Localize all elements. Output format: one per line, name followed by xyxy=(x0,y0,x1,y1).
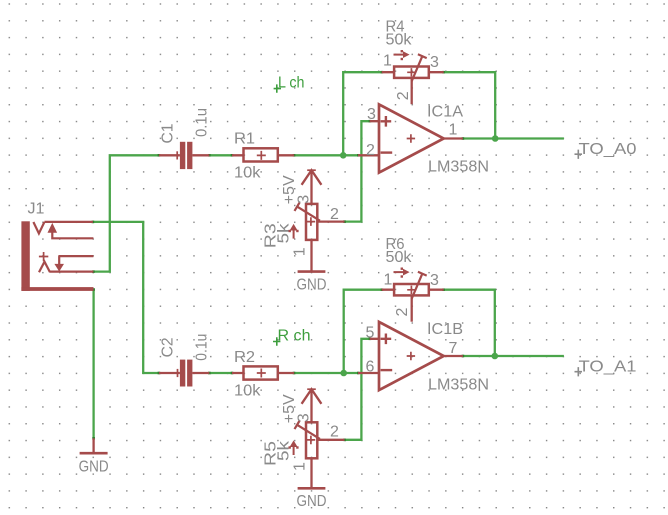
ground GND (R3) xyxy=(297,272,327,294)
trimmer R4 xyxy=(382,50,444,104)
svg-text:2: 2 xyxy=(395,91,412,100)
wire IC1B output to TO_A1 xyxy=(463,355,564,357)
ground GND (J1) xyxy=(79,438,109,475)
svg-text:L ch: L ch xyxy=(278,75,305,92)
resistor R1 xyxy=(232,148,294,161)
wire feedback junction to R6 pin1 xyxy=(344,290,382,373)
connector J1 xyxy=(21,221,93,291)
svg-text:GND: GND xyxy=(297,493,327,510)
svg-text:R1: R1 xyxy=(234,131,255,148)
svg-text:0.1u: 0.1u xyxy=(194,108,211,137)
wire R1 to IC1A pin2 xyxy=(294,154,358,156)
svg-text:6: 6 xyxy=(366,359,375,376)
svg-text:1: 1 xyxy=(384,272,393,289)
trimmer R3 xyxy=(289,202,345,271)
net label L ch xyxy=(274,75,305,93)
svg-text:LM358N: LM358N xyxy=(428,376,489,393)
svg-text:2: 2 xyxy=(330,423,339,440)
net label R ch xyxy=(273,328,311,346)
capacitor C1 xyxy=(159,142,209,169)
svg-text:2: 2 xyxy=(330,206,339,223)
svg-text:5k: 5k xyxy=(276,440,293,461)
svg-text:2: 2 xyxy=(366,142,375,159)
supply +5V (R5) xyxy=(302,389,322,422)
svg-text:7: 7 xyxy=(449,340,458,357)
svg-text:GND: GND xyxy=(297,277,327,294)
svg-text:TO_A0: TO_A0 xyxy=(579,141,637,158)
svg-text:2: 2 xyxy=(394,308,411,317)
svg-text:1: 1 xyxy=(292,462,309,471)
net label TO_A0 xyxy=(575,141,637,159)
svg-text:5k: 5k xyxy=(276,222,293,243)
junction at IC1B output xyxy=(492,353,499,360)
capacitor C2 xyxy=(159,360,209,387)
wire J1 tip-R to C1 input xyxy=(93,155,158,271)
svg-text:50k: 50k xyxy=(386,31,413,48)
svg-text:C1: C1 xyxy=(160,123,177,143)
wire C2 to R2 xyxy=(209,372,232,374)
resistor R2 xyxy=(232,366,294,379)
svg-text:IC1B: IC1B xyxy=(427,321,463,338)
svg-text:3: 3 xyxy=(367,106,376,123)
svg-text:3: 3 xyxy=(296,195,313,204)
svg-text:10k: 10k xyxy=(234,382,262,399)
svg-text:1: 1 xyxy=(292,247,309,256)
wire J1 sleeve to GND xyxy=(92,289,94,438)
wire R5 wiper to IC1B pin5 xyxy=(344,339,370,440)
svg-text:1: 1 xyxy=(449,122,458,139)
svg-text:3: 3 xyxy=(430,54,439,71)
op-amp IC1A xyxy=(358,104,463,172)
wire C1 to R1 xyxy=(209,154,232,156)
svg-text:3: 3 xyxy=(296,413,313,422)
junction at R1/R4/IC1A pin2 xyxy=(340,152,347,159)
wire IC1A output to TO_A0 xyxy=(463,137,564,139)
wire R6 pin3 to output xyxy=(444,290,495,356)
svg-text:J1: J1 xyxy=(28,201,45,218)
wire endpoint marks xyxy=(92,71,465,441)
svg-text:R2: R2 xyxy=(234,349,255,366)
net label TO_A1 xyxy=(575,359,637,377)
trimmer R6 xyxy=(382,268,444,322)
supply +5V (R3) xyxy=(302,170,322,204)
svg-text:C2: C2 xyxy=(160,337,177,357)
wire R2 to IC1B pin6 xyxy=(294,372,358,374)
ground GND (R5) xyxy=(297,488,327,510)
junction at R2/R6/IC1B pin6 xyxy=(340,370,347,377)
wire R3 wiper to IC1A pin3 xyxy=(344,121,370,221)
svg-text:LM358N: LM358N xyxy=(428,159,489,176)
trimmer R5 xyxy=(289,421,345,489)
wire feedback junction to R4 pin1 xyxy=(343,72,382,155)
svg-text:TO_A1: TO_A1 xyxy=(579,359,637,376)
svg-text:3: 3 xyxy=(430,272,439,289)
svg-text:1: 1 xyxy=(383,53,392,70)
svg-text:0.1u: 0.1u xyxy=(194,334,211,361)
op-amp IC1B xyxy=(358,322,463,390)
svg-text:R ch: R ch xyxy=(278,328,311,345)
wire J1 tip-L to C2 input xyxy=(93,222,159,373)
svg-text:5: 5 xyxy=(366,325,375,342)
svg-text:50k: 50k xyxy=(386,249,413,266)
wire R4 pin3 to output xyxy=(444,72,496,138)
svg-text:10k: 10k xyxy=(234,164,262,181)
svg-text:GND: GND xyxy=(79,459,109,476)
svg-text:IC1A: IC1A xyxy=(427,104,463,121)
junction at IC1A output xyxy=(492,135,499,142)
